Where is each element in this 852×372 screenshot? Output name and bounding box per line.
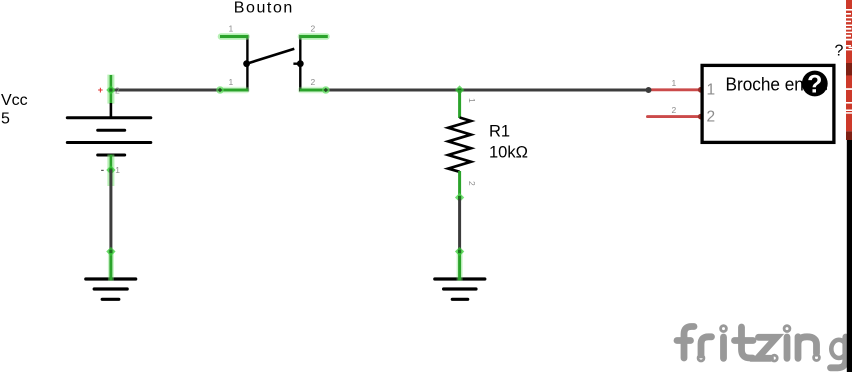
- logo ring under r: [698, 355, 704, 361]
- battery pin - halo: [107, 155, 114, 187]
- fritzing watermark: [677, 326, 847, 368]
- wire battery+ to button pin1: [111, 89, 222, 92]
- broche pin 1 red: [649, 88, 703, 91]
- wire button pin2 to broche pin1: [322, 89, 649, 92]
- button contact dot: [297, 60, 304, 67]
- button pin 1 top halo: [221, 33, 247, 40]
- wire battery- to ground: [109, 170, 112, 252]
- logo ring z end: [771, 355, 777, 361]
- broche pin 1 terminal dot: [698, 87, 704, 93]
- svg-text:2: 2: [672, 105, 677, 115]
- ground bar 2: [94, 287, 127, 290]
- ground bar 3: [452, 298, 467, 301]
- ground bar 1: [435, 277, 485, 280]
- logo letter r: [701, 337, 712, 355]
- ground GND1: [86, 247, 136, 299]
- white pin label dashes: [846, 9, 852, 114]
- junction diamond battery -: [106, 165, 115, 174]
- button lever: [246, 49, 294, 64]
- battery plate long 1: [67, 116, 151, 119]
- button pin 2 bottom halo: [301, 87, 327, 94]
- battery top lead: [110, 103, 113, 118]
- button lever pivot dot: [243, 60, 250, 67]
- resistor pin2 end diamond: [455, 193, 464, 202]
- svg-text:2: 2: [311, 77, 316, 87]
- ground bar 2: [444, 287, 476, 290]
- ground junction diamond: [455, 247, 464, 256]
- broche pin 2 red: [648, 115, 703, 118]
- svg-text:+: +: [98, 85, 103, 95]
- logo letter t: [742, 327, 753, 358]
- logo letter f: [684, 327, 694, 359]
- svg-text:5: 5: [1, 111, 10, 128]
- resistor R1 10k: [448, 85, 528, 202]
- svg-text:?: ?: [835, 43, 844, 60]
- battery plate short 1: [98, 129, 125, 132]
- svg-text:2: 2: [311, 24, 316, 34]
- svg-text:1: 1: [115, 165, 120, 175]
- svg-text:?: ?: [807, 70, 822, 98]
- ground pin green: [109, 252, 112, 281]
- button left vertical: [246, 35, 248, 92]
- button pin 2 top halo: [301, 33, 327, 40]
- dark red band 2: [846, 131, 852, 140]
- ground pin halo: [108, 250, 114, 281]
- black strip below: [847, 140, 852, 372]
- button pin 2 top leg: [300, 35, 328, 38]
- wire end dot at broche pin1: [646, 87, 652, 93]
- button right vertical: [299, 35, 301, 92]
- svg-text:1: 1: [467, 98, 477, 103]
- ground junction diamond: [106, 247, 115, 256]
- battery pin + green core: [110, 75, 113, 104]
- ground bar 3: [102, 298, 119, 301]
- svg-text:-: -: [101, 165, 104, 176]
- logo ring i2 dot: [784, 326, 790, 332]
- svg-text:1: 1: [229, 24, 234, 34]
- resistor pin 2 leg: [458, 171, 461, 199]
- ground pin green: [458, 252, 461, 281]
- logo ring n end: [814, 355, 820, 361]
- svg-text:2: 2: [707, 109, 716, 126]
- red body strip: [846, 0, 852, 131]
- button pin 2 bottom leg: [300, 89, 328, 92]
- junction dot battery -: [109, 168, 112, 171]
- ground bar 1: [86, 277, 136, 280]
- help icon circle: [802, 71, 828, 97]
- button pin 1 bottom halo: [221, 87, 247, 94]
- resistor pin 1 leg: [458, 90, 461, 118]
- svg-text:1: 1: [229, 77, 234, 87]
- battery pin + halo: [107, 75, 114, 104]
- bendpoint glow button pin2: [322, 86, 330, 94]
- button pin 1 top leg: [220, 35, 248, 38]
- logo ring i1 dot: [721, 326, 727, 332]
- svg-text:Bouton: Bouton: [234, 0, 292, 17]
- battery pin - green core: [110, 155, 113, 171]
- ground junction dot: [109, 250, 112, 253]
- resistor junction diamond at wire: [455, 85, 464, 94]
- button contact tick: [293, 63, 303, 65]
- logo letter i2 stem: [784, 337, 791, 358]
- broche body box: [702, 65, 834, 142]
- resistor zigzag: [448, 118, 471, 172]
- broche entree part U1: [646, 43, 844, 143]
- ground pin halo: [457, 250, 463, 281]
- ground GND2: [435, 247, 485, 299]
- junction dot battery +: [109, 88, 112, 91]
- svg-text:1: 1: [707, 81, 716, 98]
- svg-text:R1: R1: [489, 123, 510, 141]
- button pin 1 bottom leg: [220, 89, 248, 92]
- logo letter g: [831, 337, 846, 368]
- svg-text:2: 2: [115, 86, 120, 96]
- logo letter z: [758, 337, 777, 358]
- bendpoint glow button pin1: [216, 86, 224, 94]
- logo letter i1 stem: [720, 337, 727, 358]
- pushbutton S1 Bouton: [216, 0, 329, 94]
- svg-text:2: 2: [467, 181, 477, 186]
- battery plate long 2: [67, 141, 151, 144]
- broche pin 2 terminal dot: [698, 114, 704, 120]
- wire resistor pin2 to ground: [458, 199, 461, 252]
- battery plate short 2: [98, 154, 125, 157]
- dark red band 1: [846, 63, 852, 75]
- svg-text:1: 1: [672, 78, 677, 88]
- logo letter n: [798, 337, 817, 359]
- svg-text:Vcc: Vcc: [1, 92, 28, 109]
- svg-text:10kΩ: 10kΩ: [489, 144, 528, 162]
- junction diamond battery +: [106, 85, 115, 94]
- battery V1 Vcc 5: [1, 75, 151, 186]
- partial red part at right edge: [846, 0, 852, 372]
